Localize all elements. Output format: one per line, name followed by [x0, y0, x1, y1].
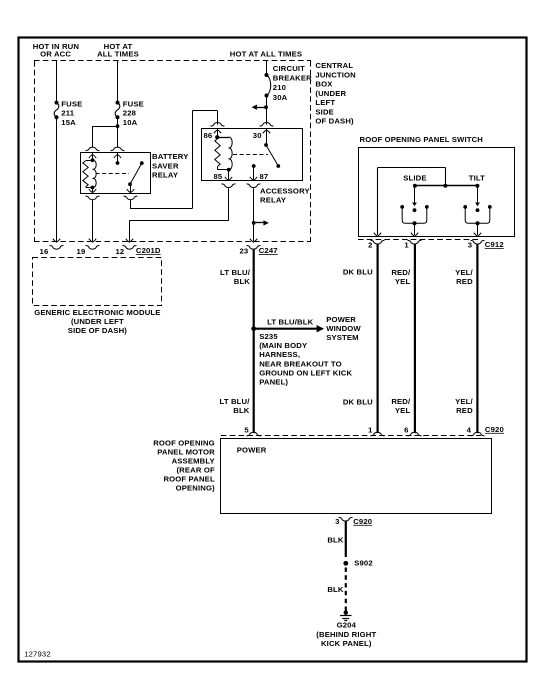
svg-text:OPENING): OPENING) — [176, 484, 216, 493]
svg-text:(UNDER LEFT: (UNDER LEFT — [71, 317, 124, 326]
svg-text:C920: C920 — [485, 425, 504, 434]
svg-text:85: 85 — [213, 172, 222, 181]
svg-text:ROOF OPENING PANEL SWITCH: ROOF OPENING PANEL SWITCH — [360, 135, 484, 144]
svg-text:SIDE: SIDE — [315, 107, 334, 116]
svg-text:BLK: BLK — [327, 585, 344, 594]
svg-text:3: 3 — [335, 517, 339, 526]
svg-text:DK BLU: DK BLU — [343, 397, 373, 406]
svg-text:PANEL): PANEL) — [259, 378, 288, 387]
svg-text:YEL: YEL — [395, 277, 411, 286]
svg-text:211: 211 — [61, 109, 74, 118]
svg-text:C247: C247 — [259, 246, 278, 255]
svg-text:BOX: BOX — [315, 80, 333, 89]
svg-text:BLK: BLK — [234, 277, 251, 286]
svg-text:S902: S902 — [354, 558, 373, 567]
svg-text:CENTRAL: CENTRAL — [315, 61, 353, 70]
svg-text:BATTERY: BATTERY — [152, 152, 189, 161]
svg-text:LT BLU/: LT BLU/ — [220, 268, 251, 277]
svg-text:RED/: RED/ — [391, 268, 411, 277]
svg-text:(UNDER: (UNDER — [315, 89, 346, 98]
svg-text:19: 19 — [77, 247, 86, 256]
svg-text:RELAY: RELAY — [152, 171, 178, 180]
svg-text:87: 87 — [260, 172, 269, 181]
svg-text:30: 30 — [253, 131, 262, 140]
svg-text:LT BLU/: LT BLU/ — [220, 397, 251, 406]
svg-text:5: 5 — [244, 425, 249, 434]
svg-text:3: 3 — [468, 240, 472, 249]
svg-text:HARNESS,: HARNESS, — [259, 350, 300, 359]
svg-text:1: 1 — [404, 240, 409, 249]
svg-text:127932: 127932 — [24, 649, 51, 658]
svg-text:ROOF OPENING: ROOF OPENING — [153, 438, 215, 447]
svg-text:(MAIN BODY: (MAIN BODY — [259, 341, 307, 350]
svg-text:BREAKER: BREAKER — [273, 74, 312, 83]
svg-text:YEL/: YEL/ — [455, 397, 473, 406]
svg-text:TILT: TILT — [469, 173, 485, 182]
svg-text:JUNCTION: JUNCTION — [315, 70, 356, 79]
svg-text:PANEL MOTOR: PANEL MOTOR — [157, 447, 215, 456]
svg-text:G204: G204 — [337, 621, 357, 630]
svg-text:16: 16 — [40, 247, 49, 256]
svg-text:YEL: YEL — [395, 406, 411, 415]
svg-text:BLK: BLK — [327, 536, 344, 545]
svg-text:15A: 15A — [61, 118, 76, 127]
svg-text:OR ACC: OR ACC — [40, 50, 71, 59]
svg-text:KICK PANEL): KICK PANEL) — [321, 639, 372, 648]
svg-text:RELAY: RELAY — [260, 196, 286, 205]
svg-text:NEAR BREAKOUT TO: NEAR BREAKOUT TO — [259, 359, 342, 368]
svg-text:6: 6 — [404, 425, 408, 434]
svg-text:RED/: RED/ — [391, 397, 411, 406]
svg-text:GENERIC ELECTRONIC MODULE: GENERIC ELECTRONIC MODULE — [34, 308, 160, 317]
svg-text:ROOF PANEL: ROOF PANEL — [163, 475, 214, 484]
svg-text:SAVER: SAVER — [152, 161, 179, 170]
svg-text:210: 210 — [273, 83, 286, 92]
svg-text:HOT AT ALL TIMES: HOT AT ALL TIMES — [230, 49, 302, 58]
svg-text:10A: 10A — [123, 118, 138, 127]
svg-text:23: 23 — [239, 246, 248, 255]
svg-text:FUSE: FUSE — [123, 100, 144, 109]
svg-text:LEFT: LEFT — [315, 98, 335, 107]
svg-text:POWER: POWER — [237, 445, 267, 454]
svg-text:GROUND ON LEFT KICK: GROUND ON LEFT KICK — [259, 368, 352, 377]
svg-text:C201D: C201D — [136, 246, 161, 255]
svg-text:SIDE OF DASH): SIDE OF DASH) — [68, 326, 127, 335]
svg-text:SLIDE: SLIDE — [403, 173, 426, 182]
svg-text:CIRCUIT: CIRCUIT — [273, 64, 305, 73]
svg-text:C912: C912 — [485, 240, 504, 249]
svg-text:POWER: POWER — [326, 315, 356, 324]
svg-text:C920: C920 — [353, 517, 372, 526]
svg-text:OF DASH): OF DASH) — [315, 117, 354, 126]
svg-text:30A: 30A — [273, 93, 288, 102]
svg-text:2: 2 — [368, 240, 372, 249]
svg-text:RED: RED — [456, 406, 473, 415]
svg-text:RED: RED — [456, 277, 473, 286]
svg-text:ASSEMBLY: ASSEMBLY — [172, 457, 215, 466]
svg-text:BLK: BLK — [233, 406, 250, 415]
svg-text:S235: S235 — [259, 332, 278, 341]
svg-text:12: 12 — [115, 247, 124, 256]
svg-text:ALL TIMES: ALL TIMES — [97, 50, 139, 59]
svg-text:(BEHIND RIGHT: (BEHIND RIGHT — [316, 630, 376, 639]
svg-text:228: 228 — [123, 109, 137, 118]
svg-text:YEL/: YEL/ — [455, 268, 473, 277]
svg-text:4: 4 — [467, 425, 472, 434]
svg-text:LT BLU/BLK: LT BLU/BLK — [267, 318, 313, 327]
svg-text:DK BLU: DK BLU — [343, 268, 373, 277]
svg-text:86: 86 — [204, 131, 213, 140]
svg-text:WINDOW: WINDOW — [326, 324, 361, 333]
svg-text:FUSE: FUSE — [61, 100, 82, 109]
svg-text:ACCESSORY: ACCESSORY — [260, 186, 310, 195]
svg-text:SYSTEM: SYSTEM — [326, 333, 359, 342]
svg-text:1: 1 — [368, 425, 373, 434]
svg-text:(REAR OF: (REAR OF — [176, 466, 215, 475]
